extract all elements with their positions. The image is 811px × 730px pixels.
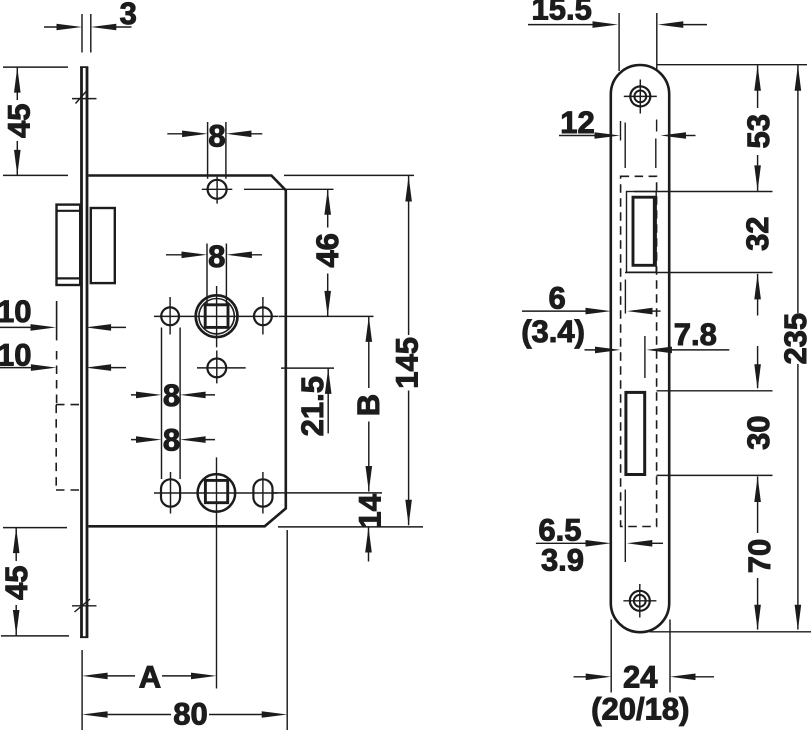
latch bolt front box xyxy=(57,205,81,285)
svg-text:46: 46 xyxy=(310,233,345,267)
dimension B (backset variable) xyxy=(368,316,370,491)
svg-text:235: 235 xyxy=(778,313,811,365)
follower row centre line xyxy=(154,315,279,317)
dimension 45 top xyxy=(3,67,68,175)
svg-text:10: 10 xyxy=(0,294,31,329)
slotted hole left xyxy=(161,479,180,506)
faceplate (side view, thin vertical plate) xyxy=(82,67,88,637)
extension line follower centre xyxy=(279,315,374,317)
svg-text:24: 24 xyxy=(623,660,658,695)
bottom row centre line xyxy=(154,492,278,494)
bottom screw hole xyxy=(630,591,650,611)
svg-text:B: B xyxy=(351,394,386,416)
svg-text:8: 8 xyxy=(208,118,225,153)
top fixing hole xyxy=(208,180,227,199)
extension line lower hole centre xyxy=(281,367,334,369)
svg-text:A: A xyxy=(139,659,161,694)
extension line case bottom xyxy=(278,526,423,528)
dimension 46 xyxy=(327,189,329,316)
hole right of follower xyxy=(254,307,272,325)
lock case outline with clipped corners xyxy=(89,176,286,527)
dimension 53 xyxy=(757,65,759,191)
dimension 8 follower square xyxy=(207,244,226,305)
faceplate break mark bottom xyxy=(72,599,97,612)
svg-text:8: 8 xyxy=(163,423,180,458)
dimension 70 xyxy=(757,477,759,630)
dimension 15.5 xyxy=(619,13,657,71)
svg-text:30: 30 xyxy=(741,415,776,449)
latch cutout opening xyxy=(627,192,657,273)
extension line dead bolt cutout top xyxy=(657,390,773,392)
dimension 14 xyxy=(368,527,370,562)
svg-text:7.8: 7.8 xyxy=(674,317,717,352)
extension line plate top xyxy=(657,64,807,66)
follower axis extension down to A dimension xyxy=(216,457,218,688)
dimension A (backset) xyxy=(81,650,83,730)
extension stubs above case xyxy=(621,120,657,169)
faceplate break mark top xyxy=(72,91,97,104)
svg-text:53: 53 xyxy=(741,114,776,148)
svg-text:8: 8 xyxy=(163,378,180,413)
lock case behind plate (dashed) xyxy=(621,176,657,526)
latch body behind faceplate xyxy=(91,208,115,283)
svg-text:15.5: 15.5 xyxy=(532,0,592,26)
dimension 21.5 xyxy=(327,368,329,433)
svg-text:32: 32 xyxy=(740,216,775,250)
dimension 8 top hole xyxy=(208,122,226,179)
bottom square follower (key hub) xyxy=(198,474,236,512)
svg-text:(20/18): (20/18) xyxy=(591,692,689,727)
hole below follower xyxy=(207,359,226,378)
extension stub below dead bolt cutout xyxy=(624,490,626,563)
svg-text:14: 14 xyxy=(352,493,387,528)
extension line dead bolt cutout bottom xyxy=(657,474,773,476)
latch bolt head xyxy=(633,197,654,265)
extension line plate bottom xyxy=(650,631,811,633)
svg-text:8: 8 xyxy=(208,239,225,274)
svg-text:80: 80 xyxy=(173,696,207,730)
square spindle follower xyxy=(196,295,238,337)
dimension 145 xyxy=(408,176,410,525)
svg-text:45: 45 xyxy=(1,104,36,138)
dimension 3 (faceplate thickness) xyxy=(82,14,91,53)
svg-text:145: 145 xyxy=(390,337,425,389)
dead bolt cutout xyxy=(626,392,645,474)
extension line top hole centre xyxy=(244,188,334,190)
hole left of follower xyxy=(161,307,179,325)
dimension 8 lower (hole offset) xyxy=(131,439,215,441)
svg-text:21.5: 21.5 xyxy=(295,376,330,436)
dimension 8 upper (hole offset) xyxy=(162,328,181,480)
svg-text:3.9: 3.9 xyxy=(541,542,584,577)
faceplate front view (rounded plate) xyxy=(611,65,669,632)
extension line case top right xyxy=(284,174,414,176)
svg-text:3: 3 xyxy=(120,0,137,31)
dimension 30 (outside arrows) xyxy=(757,346,759,388)
top screw hole xyxy=(630,86,650,106)
slotted hole right xyxy=(253,479,272,506)
dimension 45 bottom xyxy=(1,528,69,636)
dead bolt thrown position (dashed) xyxy=(56,301,58,340)
dimension 235 xyxy=(797,65,799,629)
svg-text:45: 45 xyxy=(0,566,34,600)
extension line latch cutout bottom xyxy=(625,272,773,274)
latch bolt lip lines xyxy=(57,211,81,279)
dimension 80 (case depth) xyxy=(286,530,288,730)
svg-text:70: 70 xyxy=(742,539,777,573)
dimension 24 xyxy=(611,620,670,693)
svg-text:(3.4): (3.4) xyxy=(521,314,585,349)
svg-text:6: 6 xyxy=(548,281,565,316)
extension line bottom follower centre xyxy=(272,492,382,494)
extension stubs middle xyxy=(625,280,645,379)
extension line latch cutout top xyxy=(634,191,773,193)
